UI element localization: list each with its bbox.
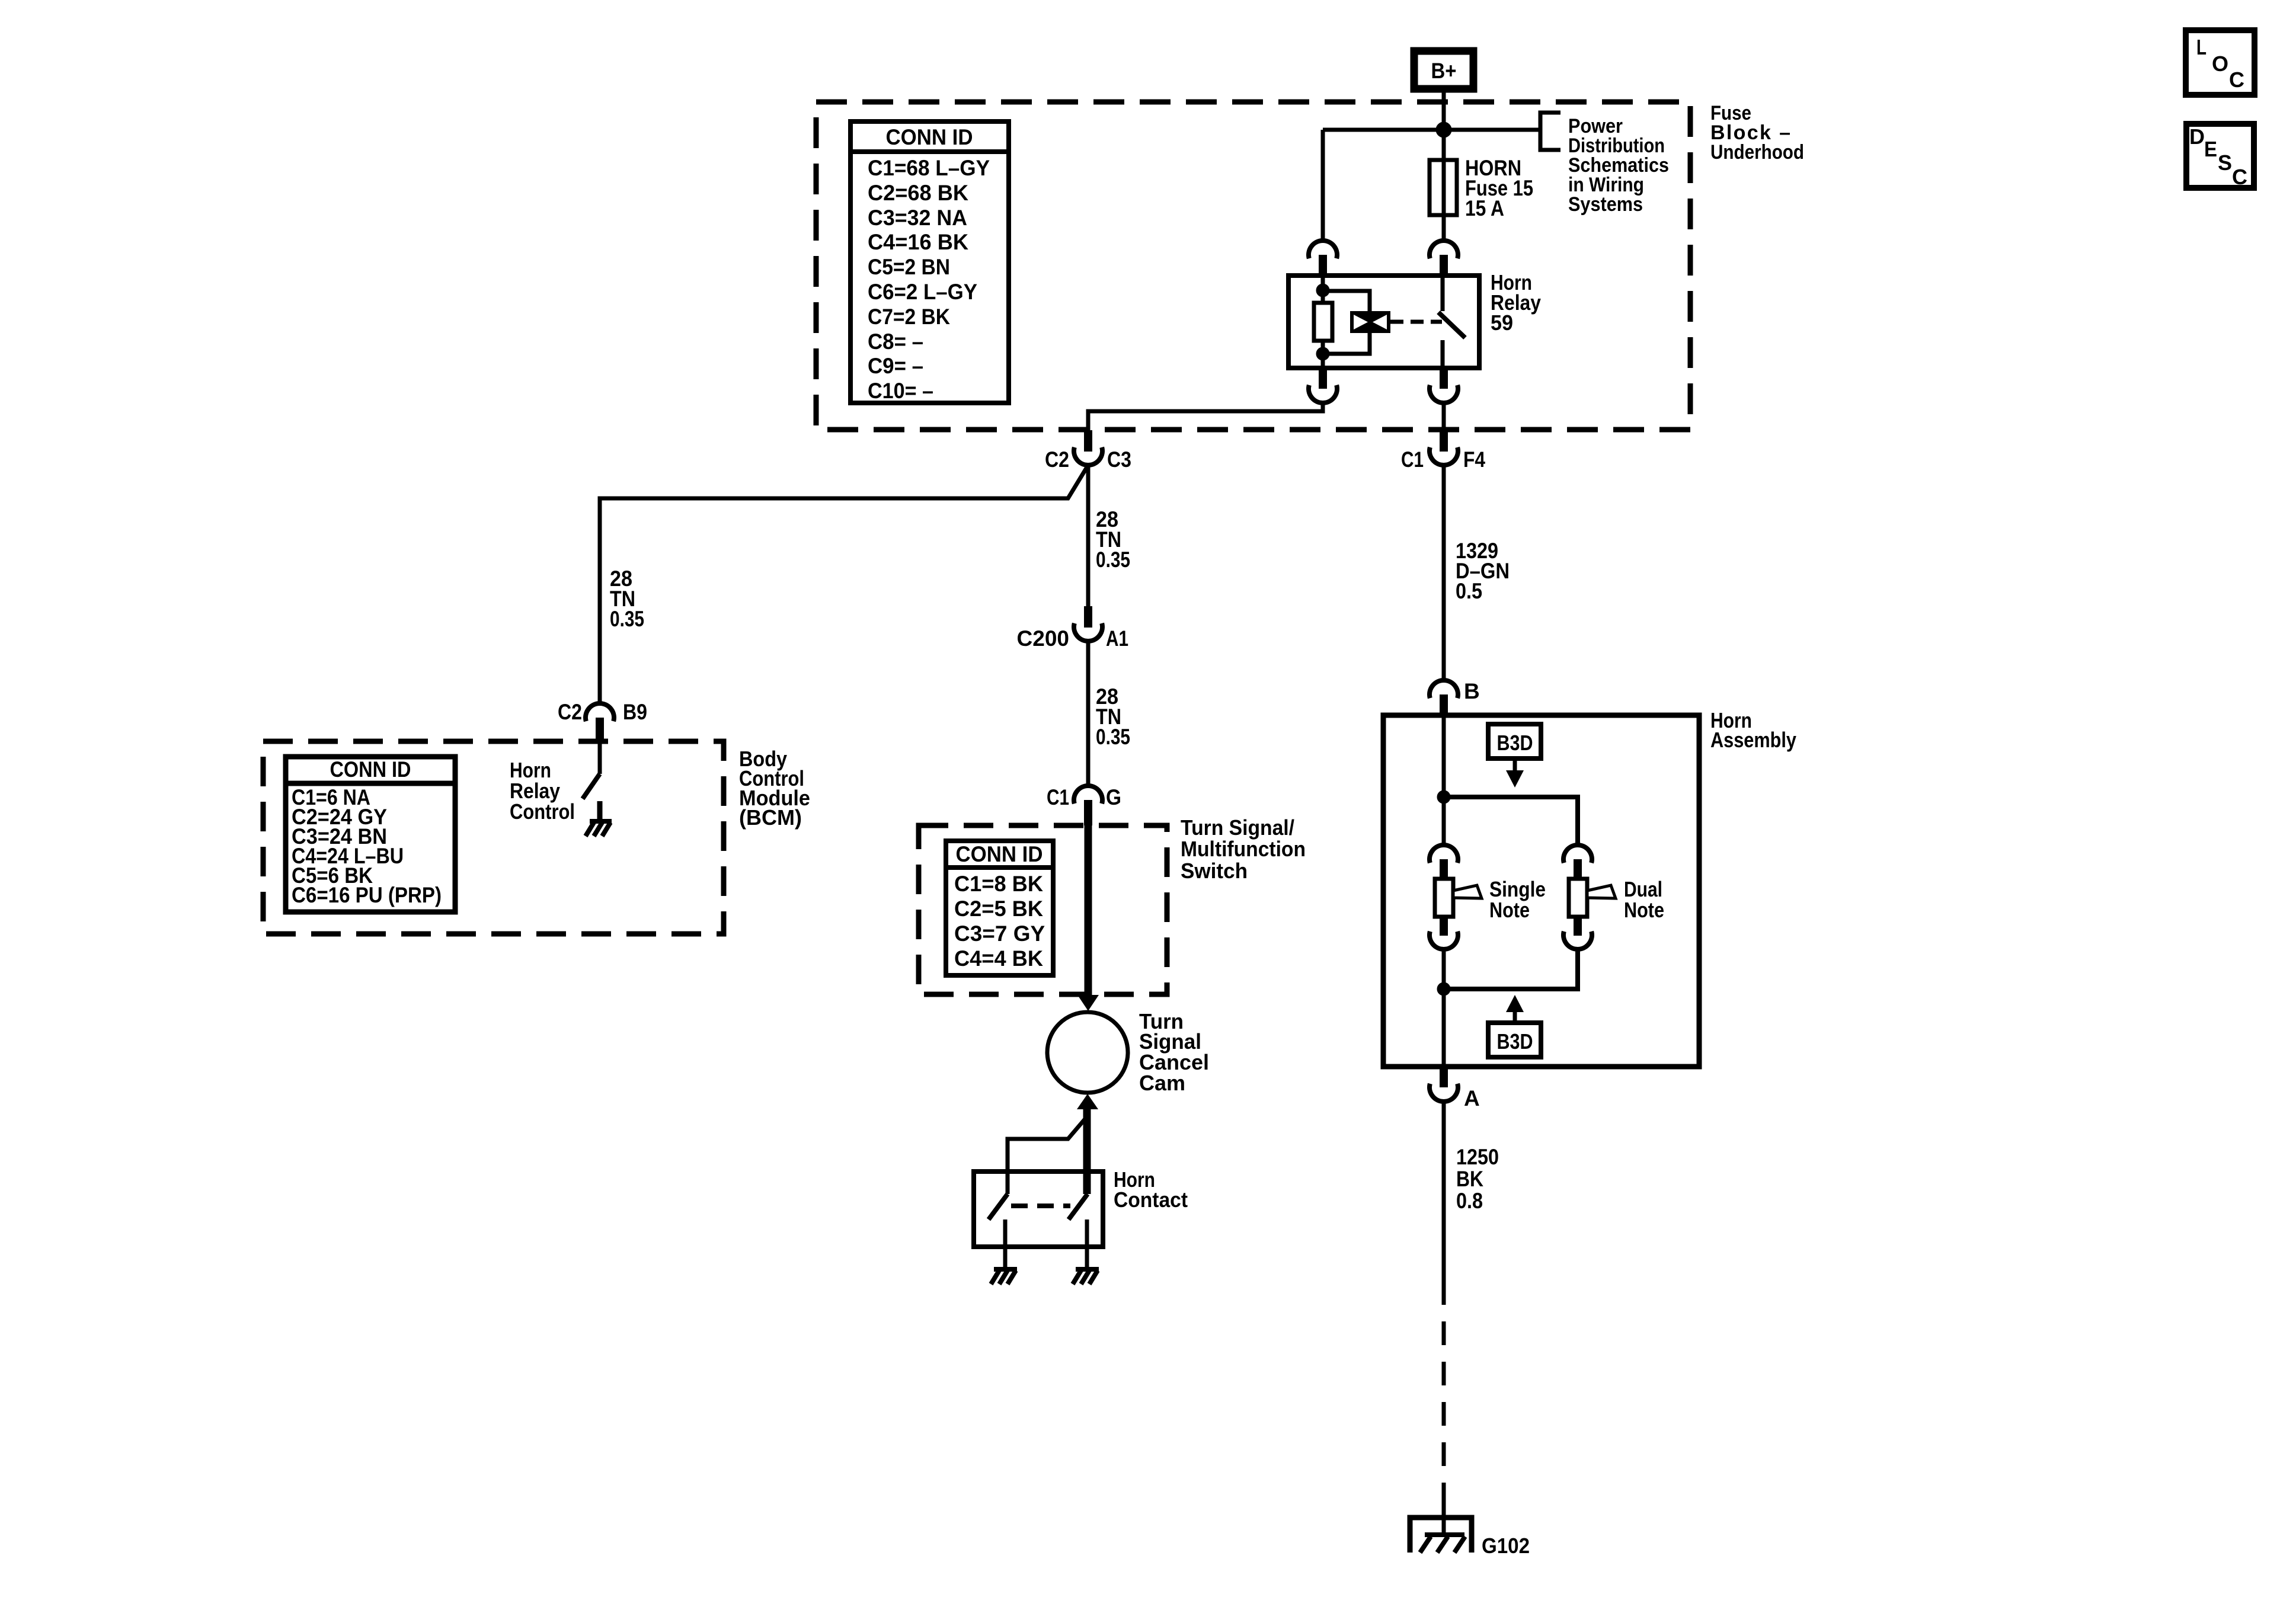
wire label 1250 BK 0.8 [1456, 1145, 1499, 1213]
svg-text:Turn Signal/: Turn Signal/ [1181, 815, 1294, 840]
svg-text:G102: G102 [1482, 1534, 1530, 1558]
svg-text:C: C [2232, 165, 2247, 189]
horn relay 59 box [1288, 276, 1479, 368]
svg-text:Contact: Contact [1114, 1188, 1188, 1212]
wire dual note back to splice [1444, 949, 1578, 989]
svg-text:C2=5 BK: C2=5 BK [954, 897, 1043, 921]
label Turn Signal Cancel Cam [1139, 1009, 1209, 1095]
svg-text:F4: F4 [1463, 447, 1485, 472]
horn contact left lower terminal [1003, 1219, 1008, 1268]
wire dashed to ground [1442, 1281, 1446, 1517]
connector B into horn assembly [1430, 679, 1480, 715]
connector C1/G into turn signal switch [1047, 785, 1121, 825]
svg-text:Multifunction: Multifunction [1181, 837, 1306, 861]
svg-text:G: G [1106, 785, 1121, 809]
horn contact right blade [1069, 1194, 1088, 1219]
node junction at B+ feed [1438, 124, 1450, 136]
wire coil bottom back to resistor bottom [1323, 333, 1370, 354]
svg-text:C: C [2229, 68, 2244, 92]
ground right below horn contact [1073, 1269, 1099, 1284]
B3D lower reference box [1488, 1023, 1541, 1057]
wire tail into ground [1442, 1504, 1446, 1535]
dashed actuation link coil to switch [1390, 320, 1442, 324]
label Turn Signal/Multifunction Switch [1181, 815, 1306, 883]
arrow up into cam bottom [1077, 1094, 1098, 1109]
connector below single note horn [1430, 917, 1458, 949]
svg-text:1250: 1250 [1456, 1145, 1499, 1169]
svg-text:Note: Note [1624, 898, 1664, 922]
svg-text:CONN ID: CONN ID [956, 842, 1043, 866]
label Single Note [1489, 877, 1546, 922]
svg-text:C2: C2 [1045, 447, 1069, 472]
dashed link between contacts [1011, 1204, 1070, 1208]
ground G102 [1410, 1518, 1530, 1558]
CONN ID table for BCM [286, 757, 455, 912]
horn assembly box [1383, 715, 1699, 1067]
svg-text:CONN ID: CONN ID [886, 125, 973, 149]
thick wire through turn signal switch [1085, 825, 1092, 996]
fuse block dashed boundary [816, 102, 1690, 430]
wire junction down to fuse [1442, 130, 1446, 240]
svg-text:C4=16 BK: C4=16 BK [868, 230, 968, 254]
horn contact box [974, 1172, 1103, 1247]
label Fuse Block - Underhood [1710, 102, 1804, 164]
relay switch fixed contact upper [1441, 276, 1445, 311]
wire C1/F4 down to horn assembly [1442, 465, 1446, 680]
dual note horn body [1569, 879, 1616, 917]
svg-text:Systems: Systems [1568, 193, 1643, 216]
svg-text:B9: B9 [623, 700, 647, 724]
relay switch lower contact [1441, 340, 1445, 368]
svg-text:BK: BK [1456, 1167, 1483, 1191]
resistor inside relay [1314, 303, 1332, 341]
wire label 28 TN 0.35 (lower) [1096, 684, 1130, 749]
wire B+ down to junction [1442, 89, 1446, 130]
svg-text:C200: C200 [1017, 626, 1069, 651]
turn signal multifunction switch dashed boundary [919, 825, 1167, 994]
wire C2/C3 down to C200 [1086, 465, 1091, 606]
node lower splice [1439, 984, 1448, 994]
svg-text:C3=7 GY: C3=7 GY [954, 921, 1045, 946]
wire loop to relay coil [1323, 291, 1370, 311]
wire C200 down to C1/G [1086, 641, 1091, 786]
wire label 28 TN 0.35 (upper) [1096, 507, 1130, 572]
svg-text:C1: C1 [1047, 785, 1069, 809]
node dot top of resistor [1318, 286, 1328, 295]
svg-text:A1: A1 [1106, 626, 1128, 651]
label HORN Fuse 15 15 A [1465, 156, 1533, 220]
svg-text:B3D: B3D [1497, 731, 1533, 755]
CONN ID table for turn signal switch [946, 841, 1053, 975]
svg-text:C3=32 NA: C3=32 NA [868, 206, 967, 230]
horn contact right lower terminal [1085, 1219, 1089, 1268]
svg-text:E: E [2204, 137, 2217, 161]
svg-text:C10= –: C10= – [868, 379, 933, 403]
arrow from B3D to wire [1506, 758, 1524, 788]
svg-text:0.35: 0.35 [610, 607, 644, 631]
svg-text:0.35: 0.35 [1096, 548, 1130, 572]
svg-text:C4=4 BK: C4=4 BK [954, 946, 1043, 971]
svg-text:0.5: 0.5 [1456, 579, 1482, 603]
label Horn Contact [1114, 1167, 1188, 1212]
wire splice across to dual note [1444, 797, 1578, 844]
svg-text:S: S [2218, 151, 2232, 175]
connector A out of horn assembly [1430, 1067, 1480, 1110]
wire branch to left horn contact [1008, 1119, 1085, 1194]
svg-text:0.35: 0.35 [1096, 725, 1130, 749]
LOC legend box [2186, 30, 2255, 95]
ground left below horn contact [991, 1269, 1017, 1284]
svg-text:C3: C3 [1107, 447, 1131, 472]
wire relay coil output jog to C2/C3 [1088, 403, 1323, 430]
svg-text:B+: B+ [1431, 59, 1457, 83]
svg-text:Underhood: Underhood [1710, 141, 1804, 164]
BCM driver switch blade [583, 774, 600, 799]
svg-text:C1: C1 [1401, 447, 1424, 472]
svg-text:Control: Control [510, 799, 575, 824]
svg-text:15 A: 15 A [1465, 196, 1504, 220]
connector into single note horn [1430, 845, 1458, 880]
BCM driver switch wire [598, 741, 602, 774]
svg-text:Assembly: Assembly [1710, 728, 1796, 752]
arrow up from B3D lower [1506, 995, 1524, 1023]
connector into dual note horn [1563, 845, 1592, 880]
connector below dual note horn [1563, 917, 1592, 949]
relay coil symbol [1350, 311, 1390, 333]
wire relay switch output down [1442, 403, 1446, 430]
svg-text:C2: C2 [558, 700, 582, 724]
node dot bottom of resistor [1318, 349, 1328, 359]
connector female cup above relay pin 30 [1430, 241, 1458, 277]
label Horn Relay Control [510, 758, 575, 824]
svg-text:0.8: 0.8 [1456, 1189, 1483, 1213]
turn signal cancel cam circle [1047, 1012, 1128, 1093]
wire horizontal feed inside fuse block [1323, 128, 1540, 132]
label Dual Note [1624, 877, 1664, 922]
connector female cup above relay pin 85 [1309, 130, 1337, 277]
svg-text:A: A [1464, 1086, 1480, 1110]
svg-text:C9= –: C9= – [868, 354, 923, 378]
svg-text:B: B [1464, 679, 1480, 703]
DESC legend box [2186, 124, 2254, 189]
wire resistor to bottom [1321, 341, 1325, 368]
BCM internal ground [586, 801, 612, 836]
node splice to dual note [1439, 792, 1448, 802]
wire label 1329 D-GN 0.5 [1456, 539, 1510, 603]
relay switch blade [1438, 312, 1465, 338]
connector pin below relay coil [1309, 368, 1337, 403]
label Horn Relay 59 [1491, 270, 1541, 335]
thick wire cam to horn contact [1083, 1108, 1091, 1194]
svg-text:C8= –: C8= – [868, 329, 923, 354]
inline connector C2/C3 [1045, 430, 1131, 472]
svg-text:Switch: Switch [1181, 859, 1248, 883]
wire single note to lower splice [1442, 949, 1446, 1067]
svg-text:Note: Note [1489, 898, 1530, 922]
wire label 28 TN 0.35 (BCM branch) [610, 566, 644, 631]
svg-text:C5=2 BN: C5=2 BN [868, 255, 950, 279]
svg-text:59: 59 [1491, 311, 1513, 335]
svg-text:O: O [2212, 52, 2228, 76]
fuse HORN Fuse 15 15A [1430, 160, 1457, 215]
svg-text:C1=8 BK: C1=8 BK [954, 872, 1043, 896]
svg-text:CONN ID: CONN ID [330, 757, 411, 782]
svg-text:Cam: Cam [1139, 1071, 1185, 1095]
connector pin below relay switch [1430, 368, 1458, 403]
svg-text:C6=2 L–GY: C6=2 L–GY [868, 280, 977, 304]
power distribution reference bracket [1540, 113, 1560, 150]
relay coil branch wire left [1321, 276, 1325, 303]
connector C2/B9 into BCM [558, 700, 647, 741]
svg-text:C6=16 PU (PRP): C6=16 PU (PRP) [292, 883, 442, 907]
svg-text:(BCM): (BCM) [739, 805, 802, 830]
label Horn Assembly [1710, 708, 1796, 752]
horn contact left blade [989, 1194, 1008, 1219]
CONN ID table for fuse block [850, 121, 1009, 403]
B3D upper reference box [1488, 724, 1541, 758]
svg-text:C1=68 L–GY: C1=68 L–GY [868, 156, 990, 180]
B+ battery feed box [1414, 51, 1473, 89]
label Power Distribution Schematics in Wiring Systems [1568, 115, 1669, 216]
svg-text:C2=68 BK: C2=68 BK [868, 181, 968, 205]
wire branch to BCM horn relay control [600, 465, 1088, 703]
inline connector C200/A1 [1017, 606, 1128, 651]
svg-text:L: L [2196, 35, 2207, 59]
svg-text:B3D: B3D [1497, 1029, 1533, 1054]
svg-text:C7=2 BK: C7=2 BK [868, 305, 950, 329]
body control module dashed boundary [263, 741, 724, 934]
single note horn body [1435, 879, 1482, 917]
arrow into cancel cam [1077, 995, 1099, 1011]
wire A down solid [1442, 1102, 1446, 1281]
label Body Control Module (BCM) [739, 747, 810, 830]
svg-text:D: D [2189, 124, 2205, 149]
inline connector C1/F4 [1401, 430, 1485, 472]
wire B down to splice [1442, 715, 1446, 844]
